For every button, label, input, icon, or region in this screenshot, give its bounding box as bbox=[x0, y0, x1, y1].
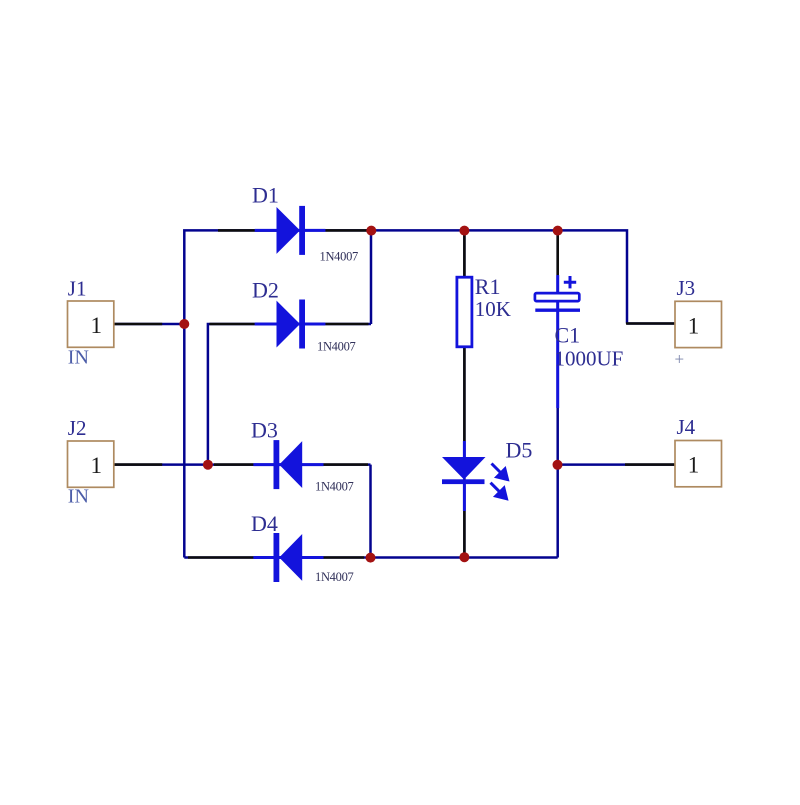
wire vertical joining D1 and D2 cathodes bbox=[370, 230, 373, 324]
pin J4 black bbox=[625, 463, 675, 466]
wire C1 branch vertical bbox=[556, 230, 559, 557]
wire top bus from left vertical to right corner bbox=[184, 230, 627, 557]
svg-text:1: 1 bbox=[91, 453, 103, 478]
pin D1 right black bbox=[325, 229, 367, 232]
wire D2 row with vertical down to J2 junction bbox=[208, 324, 371, 465]
pin D2 left black bbox=[210, 323, 255, 326]
svg-text:D1: D1 bbox=[252, 183, 279, 208]
connector J2 box bbox=[68, 441, 114, 487]
connector J4 box bbox=[675, 441, 722, 487]
diode D3 body bbox=[279, 441, 302, 488]
pin R1 bottom to LED top black bbox=[463, 347, 466, 442]
svg-text:1000UF: 1000UF bbox=[555, 347, 624, 371]
pin C1 top black bbox=[556, 230, 559, 275]
LED D5 body triangle bbox=[442, 457, 486, 480]
svg-text:1N4007: 1N4007 bbox=[317, 340, 356, 354]
svg-text:J3: J3 bbox=[677, 276, 696, 300]
wire J2 row to D3 bbox=[114, 463, 371, 466]
diode D2 body bbox=[277, 301, 301, 348]
diode D2 leads blue bbox=[255, 323, 326, 326]
LED D5 emission arrow 1 bbox=[492, 464, 508, 480]
pin D4 right black bbox=[324, 556, 365, 559]
svg-text:10K: 10K bbox=[475, 297, 511, 321]
diode D4 leads blue bbox=[253, 556, 323, 559]
junction dot D1 cathode top bus bbox=[366, 226, 376, 236]
wire bottom bus bbox=[184, 556, 557, 559]
junction dot J1 bbox=[179, 319, 189, 329]
svg-text:R1: R1 bbox=[475, 274, 501, 299]
junction dot R1 top bbox=[459, 226, 469, 236]
junction dot D3 D4 bbox=[366, 553, 376, 563]
capacitor C1 bottom plate bbox=[535, 309, 580, 312]
svg-text:J1: J1 bbox=[68, 277, 87, 301]
capacitor C1 top lead blue bbox=[556, 275, 559, 294]
svg-text:IN: IN bbox=[68, 347, 89, 369]
diode D1 body bbox=[277, 207, 301, 254]
svg-text:1: 1 bbox=[688, 313, 700, 338]
svg-text:+: + bbox=[675, 350, 685, 369]
LED D5 cathode bar bbox=[442, 479, 485, 484]
pin J3 black bbox=[626, 322, 675, 325]
junction dot C1 top bbox=[553, 226, 563, 236]
LED D5 bottom lead blue bbox=[463, 482, 466, 511]
wire J1 to left vertical bbox=[114, 323, 184, 326]
resistor R1 body bbox=[457, 277, 472, 347]
svg-text:IN: IN bbox=[68, 486, 89, 508]
pin R1 top black bbox=[463, 230, 466, 277]
pin D4 left black bbox=[188, 556, 253, 559]
pin D2 right black bbox=[325, 323, 368, 326]
capacitor C1 bottom lead blue bbox=[556, 300, 559, 408]
diode D2 cathode bar bbox=[299, 300, 305, 349]
diode D1 leads blue bbox=[255, 229, 326, 232]
pin D3 left black bbox=[214, 463, 253, 466]
capacitor C1 top plate bbox=[535, 293, 579, 301]
diode D4 body bbox=[279, 534, 302, 581]
wire vertical joining D3 and D4 bbox=[369, 465, 372, 558]
capacitor C1 plus sign bbox=[564, 276, 576, 288]
svg-text:D3: D3 bbox=[251, 417, 278, 442]
pin J1 black bbox=[114, 323, 162, 326]
svg-text:J2: J2 bbox=[68, 416, 87, 440]
LED D5 top lead blue bbox=[463, 441, 466, 459]
diode D3 leads blue bbox=[253, 463, 323, 466]
junction dot J4 tap bbox=[553, 460, 563, 470]
diode D1 cathode bar bbox=[299, 206, 305, 255]
wire J3 horizontal bbox=[627, 322, 675, 325]
LED D5 emission arrow 2 bbox=[491, 483, 507, 499]
pin D3 right black bbox=[324, 463, 369, 466]
junction dot J2 bbox=[203, 460, 213, 470]
svg-text:D4: D4 bbox=[251, 511, 278, 536]
svg-text:1: 1 bbox=[688, 452, 700, 477]
svg-text:C1: C1 bbox=[555, 322, 581, 347]
wire J4 row bbox=[558, 463, 675, 466]
svg-text:1N4007: 1N4007 bbox=[315, 479, 354, 493]
diode D3 cathode bar bbox=[274, 440, 280, 489]
junction dot LED bottom bbox=[459, 552, 469, 562]
pin J2 black bbox=[114, 463, 162, 466]
svg-text:D5: D5 bbox=[506, 437, 533, 462]
svg-text:1N4007: 1N4007 bbox=[320, 249, 359, 263]
svg-text:D2: D2 bbox=[252, 278, 279, 303]
svg-text:J4: J4 bbox=[677, 415, 696, 439]
svg-text:1: 1 bbox=[91, 313, 103, 338]
connector J1 box bbox=[68, 301, 114, 347]
pin D1 left black bbox=[218, 229, 277, 232]
wire R1 LED branch vertical bbox=[463, 230, 466, 557]
diode D4 cathode bar bbox=[274, 533, 280, 582]
connector J3 box bbox=[675, 301, 722, 347]
svg-text:1N4007: 1N4007 bbox=[315, 570, 354, 584]
pin LED bottom black bbox=[463, 511, 466, 556]
